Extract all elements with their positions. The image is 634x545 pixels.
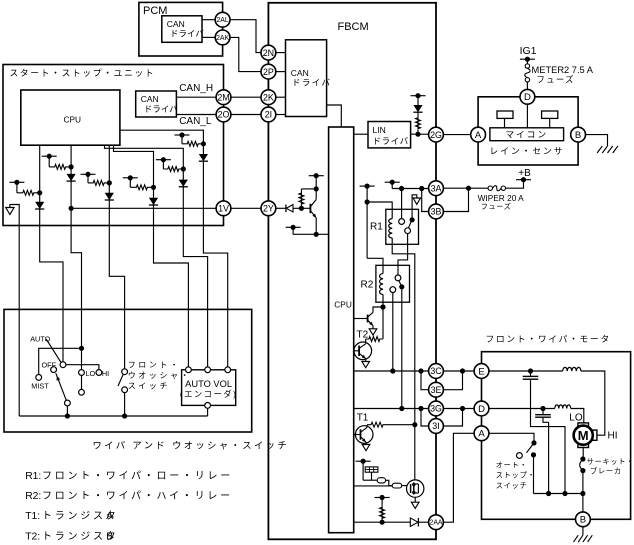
pin 2AK <box>215 30 230 45</box>
junction breaker top <box>580 456 585 461</box>
contact auto-stop NC <box>517 453 523 459</box>
wire AUTO contact to HI contact <box>66 365 99 370</box>
wire rail to B <box>582 494 584 513</box>
wire 3A to fuse <box>443 187 488 189</box>
wire CAN_H net <box>176 96 216 98</box>
svg-text:B: B <box>575 130 581 141</box>
inductor field coil 2 <box>555 405 571 409</box>
ground rain sensor <box>597 146 602 153</box>
svg-text:フロント・: フロント・ <box>128 360 181 369</box>
fuse METER2 <box>525 64 529 68</box>
supply stub R2 coil <box>360 185 375 187</box>
wire coil net to R1 coil <box>367 202 392 219</box>
wire CAN driver PCM to 2AL <box>202 19 215 21</box>
resistor R-D1 <box>17 190 40 195</box>
junction R-D4 <box>151 185 156 190</box>
svg-text:3C: 3C <box>430 366 442 376</box>
pull-up stub R-D2 <box>42 155 57 157</box>
wire CPU to 2AA <box>354 521 411 523</box>
wire w5 to encoder <box>154 226 189 367</box>
relay R1 blade <box>408 222 411 229</box>
wire 2P to CAN driver FBCM <box>276 71 286 73</box>
wire fuse to +B <box>506 180 524 189</box>
transistor Q2a emitter <box>368 320 373 325</box>
svg-text:E: E <box>478 366 484 377</box>
wire 3B outer tie <box>443 188 468 211</box>
wire resistor to collector <box>301 188 316 190</box>
wire stub to 3A line <box>391 182 393 188</box>
pull-up stub R-D4 <box>123 177 138 179</box>
wire 2Y to diode <box>276 207 286 209</box>
junction rail 1 <box>65 413 70 418</box>
wire stub R-D5 down <box>162 160 164 169</box>
motor brush tab top <box>578 423 589 426</box>
wire 2I to CAN driver FBCM <box>276 114 286 116</box>
resistor T1 collector <box>367 422 387 427</box>
svg-text:フロント・ワイパ・ロー・リレー: フロント・ワイパ・ロー・リレー <box>42 470 233 482</box>
svg-text:R2: R2 <box>361 279 374 290</box>
wire washer to rail <box>124 393 126 416</box>
wire w7 to encoder <box>203 226 227 367</box>
MOSFET drain lead <box>414 483 419 485</box>
transistor T1 collector <box>361 427 367 432</box>
svg-text:フューズ: フューズ <box>537 75 575 85</box>
wire motor to breaker <box>582 448 584 460</box>
transistor Q 2Y base bar <box>309 204 311 213</box>
transistor Q2a collector <box>368 312 373 317</box>
svg-text:FBCM: FBCM <box>338 21 369 33</box>
wire emitter down <box>315 218 317 235</box>
junction rail cap1 <box>562 491 567 496</box>
svg-text:2K: 2K <box>263 92 274 102</box>
resistor R-D5 <box>163 167 183 172</box>
blade OFF with arrow <box>56 373 67 400</box>
wire sensor B to ground <box>585 135 607 146</box>
transistor T1 base bar <box>360 429 362 439</box>
wire coupler2 to MOSFET <box>402 485 407 487</box>
relay R1 contact NO <box>399 219 405 225</box>
CAN driver box in FBCM <box>286 40 327 117</box>
svg-text:R2:: R2: <box>25 491 41 502</box>
pin 2I <box>261 107 276 122</box>
svg-text:D: D <box>478 404 485 415</box>
svg-text:CAN_L: CAN_L <box>179 116 212 127</box>
svg-text:オート・: オート・ <box>496 460 528 469</box>
wire motor ground rail <box>534 493 583 495</box>
junction rail cap2 <box>546 491 551 496</box>
svg-text:2AA: 2AA <box>429 520 442 527</box>
motor brush tab bottom <box>578 444 589 447</box>
svg-text:ウオッシャ・: ウオッシャ・ <box>128 371 192 380</box>
junction R-D3 <box>107 180 112 185</box>
wire coil1 to HI brush <box>581 371 605 435</box>
junction collector <box>314 186 319 191</box>
junction 3A-3B tie <box>466 186 471 191</box>
svg-text:スタート・ストップ・ユニット: スタート・ストップ・ユニット <box>10 68 156 78</box>
wire ground to 1V line <box>10 205 19 209</box>
svg-text:R1:: R1: <box>25 471 41 482</box>
pin D motor <box>474 401 489 416</box>
pin 2AL <box>215 12 230 27</box>
wire capacitor1 to rail <box>531 379 566 493</box>
wire CPU output 3 <box>108 145 110 225</box>
pin 1V <box>216 201 231 216</box>
pin B rain sensor <box>571 127 586 142</box>
wire coil2 to LO brush <box>571 409 584 423</box>
svg-text:2O: 2O <box>218 110 230 120</box>
diode R-D4 <box>149 198 158 205</box>
inductor field coil 1 <box>563 367 581 371</box>
ground MOSFET <box>411 502 419 508</box>
svg-text:ワイパ アンド ウオッシャ・スイッチ: ワイパ アンド ウオッシャ・スイッチ <box>93 440 290 450</box>
pin A rain sensor <box>471 127 486 142</box>
wire CPU to Q2a base <box>354 318 368 320</box>
junction R-D2 <box>69 164 74 169</box>
wire w6 to encoder <box>183 226 207 367</box>
CAN driver box in start-stop unit <box>136 91 177 117</box>
ground motor B <box>574 535 579 542</box>
wire 3I branch <box>421 409 429 427</box>
pin B motor <box>576 512 591 527</box>
junction emitter line <box>314 232 319 237</box>
pin 2AA <box>429 515 444 530</box>
relay R1 contact NC <box>405 228 411 234</box>
wire MOSFET to ground <box>414 497 416 502</box>
junction E line <box>460 368 465 373</box>
wire T2 emitter to ground <box>365 359 367 362</box>
motor M armature <box>574 426 593 445</box>
wire R1 NC to R2 NO <box>398 234 408 275</box>
resistor R-D3 <box>88 180 109 185</box>
wire 2G to sensor A <box>443 134 471 136</box>
CPU box in start-stop unit <box>21 90 120 145</box>
diode R-D6 <box>199 154 208 161</box>
ground T1 <box>362 445 370 451</box>
svg-text:スイッチ: スイッチ <box>496 481 528 490</box>
pin 3A <box>429 181 444 196</box>
junction capacitor 1 <box>528 368 533 373</box>
resistor R-D4 <box>130 185 153 190</box>
svg-text:フューズ: フューズ <box>481 202 512 211</box>
junction rail 2 <box>122 413 127 418</box>
wire stub R-D6 down <box>181 135 183 144</box>
resistor R-D2 <box>49 164 71 169</box>
wire R2 coil bottom <box>382 295 384 308</box>
svg-text:MIST: MIST <box>31 381 49 390</box>
svg-text:HI: HI <box>608 431 618 442</box>
wire LIN driver to 2G <box>411 133 429 135</box>
wire 1V line <box>71 207 216 209</box>
junction R-D5 <box>181 166 186 171</box>
supply stub IG1 <box>520 58 535 60</box>
svg-text:B: B <box>580 515 586 526</box>
wire 3C line <box>354 370 429 372</box>
pull-up stub R-D1 <box>9 181 24 183</box>
contact AUTO <box>60 362 66 368</box>
pin 2N <box>261 45 276 60</box>
transistor T2 emitter <box>359 353 365 358</box>
junction auto-stop bottom <box>531 452 536 457</box>
wire 3C to E <box>443 370 474 372</box>
capacitor 1 <box>530 371 532 376</box>
wire 3A line <box>392 188 429 190</box>
wire CPU output 1 <box>39 145 41 225</box>
wire diode to base <box>293 207 310 209</box>
diode to 2AA (open, cathode right) <box>410 518 418 527</box>
wire D to field coil 2 <box>489 408 555 410</box>
svg-text:CAN: CAN <box>167 19 185 29</box>
pin 3E <box>429 382 444 397</box>
wire CAN_H 2M to 2K <box>231 96 261 98</box>
wire R2 coil to T2 resistor <box>382 307 384 339</box>
wire stub R-D3 down <box>87 174 89 183</box>
junction 1V line <box>69 206 74 211</box>
wire w2 to AUTO contact <box>40 226 63 362</box>
svg-text:2M: 2M <box>217 92 229 102</box>
wire 3E outer tie <box>443 371 462 390</box>
wire CAN driver FBCM to CPU <box>327 105 342 127</box>
wire Q2a emitter to ground <box>372 326 374 329</box>
wire T1 emitter to ground <box>365 442 367 444</box>
contact washer switch top <box>122 369 128 375</box>
wire w4 to washer switch <box>109 226 124 369</box>
wire CPU output 2 <box>70 145 72 225</box>
driver block grid <box>365 467 378 472</box>
wire CAN driver PCM to 2AK <box>202 36 215 38</box>
contact pivot2 <box>79 389 85 395</box>
relay R2 box <box>376 265 410 302</box>
wire stub R-D2 down <box>48 156 50 167</box>
transistor Q2a base bar <box>367 315 369 323</box>
svg-text:A: A <box>106 511 113 522</box>
junction R2 coil net CPU <box>365 199 370 204</box>
relay R2 blade <box>399 281 402 286</box>
pin 2Y <box>261 201 276 216</box>
junction MIST branch <box>79 346 84 351</box>
svg-text:フロント・ワイパ・ハイ・リレー: フロント・ワイパ・ハイ・リレー <box>42 490 233 502</box>
wire R1 common to float ground <box>412 195 417 220</box>
junction 2AA resistor <box>380 520 385 525</box>
svg-text:+B: +B <box>518 168 531 179</box>
diode R-D3 <box>105 193 114 200</box>
svg-text:A: A <box>478 429 485 440</box>
MOSFET channel bar <box>413 483 415 495</box>
wire R2 coil net to coil <box>367 258 383 273</box>
diode R-D1 <box>35 202 44 209</box>
motor brush tab right <box>593 430 597 440</box>
wire 3G line <box>354 408 429 410</box>
svg-text:3I: 3I <box>432 421 439 431</box>
svg-text:A: A <box>475 130 482 141</box>
svg-text:T1:: T1: <box>25 511 40 522</box>
coupler pill 1 <box>377 478 385 483</box>
wire coil bottom to Q collector <box>373 307 383 312</box>
svg-text:ドライバ: ドライバ <box>144 104 178 114</box>
pull-up stub R-D5 <box>156 159 171 161</box>
wire w3 to LO contact <box>71 226 81 370</box>
wire stub down <box>362 461 364 480</box>
wire CAN_L net <box>176 114 216 116</box>
contact encoder top 2 <box>205 367 211 373</box>
junction LIN output <box>415 132 420 137</box>
junction T1 at R1 coil net <box>412 422 417 427</box>
wire stub R-D1 down <box>16 182 18 193</box>
pin 2G <box>429 127 444 142</box>
svg-text:スイッチ: スイッチ <box>128 382 170 391</box>
wire 3E branch <box>421 371 429 390</box>
relay R2 contact NO <box>395 275 401 281</box>
wire 3G to D <box>443 408 474 410</box>
capacitor 2 <box>542 409 544 415</box>
pin 2K <box>261 90 276 105</box>
relay R1 box <box>386 209 419 244</box>
wire 3I outer tie <box>443 409 462 427</box>
diode at 2Y (cathode left) <box>286 205 293 212</box>
pin D rain sensor <box>520 89 535 104</box>
transistor Q 2Y emitter <box>311 211 317 218</box>
junction R2 coil bottom <box>380 304 385 309</box>
svg-text:CAN: CAN <box>291 68 309 78</box>
pin 3G <box>429 401 444 416</box>
wire w1 common to switch box rail <box>18 208 20 416</box>
wire diode to stub <box>417 96 419 105</box>
svg-text:2Y: 2Y <box>263 204 274 214</box>
wire block stem <box>371 472 373 480</box>
svg-text:3B: 3B <box>431 207 442 217</box>
coupler pill 2 <box>392 483 402 488</box>
svg-text:ドライバ: ドライバ <box>170 29 204 39</box>
wire stub to emitter line <box>292 227 294 234</box>
junction R-D6 <box>201 141 206 146</box>
MOSFET gate bar <box>410 484 412 493</box>
pin 2P <box>261 64 276 79</box>
svg-text:LO: LO <box>86 369 96 378</box>
wire to coupler1 <box>363 479 377 481</box>
wire breaker to rail <box>582 471 584 494</box>
svg-text:2G: 2G <box>430 130 442 140</box>
svg-text:B: B <box>106 531 113 542</box>
svg-text:サーキット・: サーキット・ <box>587 457 634 466</box>
svg-text:D: D <box>524 92 531 103</box>
transistor T1 emitter <box>361 437 366 442</box>
relay R2 common <box>399 284 404 289</box>
pull-up stub R-D6 <box>175 134 190 136</box>
supply stub +B <box>516 179 531 181</box>
supply stub R1 coil <box>385 181 400 183</box>
wire auto-stop to rail <box>533 455 535 494</box>
wire 1V to 2Y <box>231 207 261 209</box>
wire CPU output 6 <box>120 130 203 225</box>
wire capacitor2 to rail <box>543 417 549 493</box>
contact OFF <box>51 367 57 373</box>
wire rail to encoder <box>207 408 209 416</box>
svg-text:ドライバ: ドライバ <box>292 78 331 88</box>
svg-text:2I: 2I <box>265 110 272 120</box>
FBCM module box <box>268 3 436 540</box>
wire IG1 to fuse <box>526 59 528 64</box>
supply stub LIN <box>411 95 426 97</box>
svg-text:AUTO VOL: AUTO VOL <box>185 379 232 389</box>
svg-text:レイン・センサ: レイン・センサ <box>490 146 565 156</box>
ground T2 <box>362 362 370 368</box>
svg-text:2N: 2N <box>263 48 274 58</box>
ground Q2a <box>369 329 377 335</box>
svg-text:LO: LO <box>569 413 583 424</box>
wire 2N to CAN driver FBCM <box>276 52 286 54</box>
svg-text:2AL: 2AL <box>216 17 228 24</box>
svg-text:2AK: 2AK <box>216 35 229 42</box>
wire R2 coil net vertical <box>366 186 368 258</box>
wire 3B branch inside <box>422 189 429 212</box>
relay R1 coil <box>389 219 392 238</box>
supply stub emitter <box>286 226 301 228</box>
wiper and washer switch box <box>4 309 252 432</box>
transistor T2 collector <box>359 344 365 349</box>
svg-text:CPU: CPU <box>64 115 82 125</box>
LIN driver box in FBCM <box>368 122 411 148</box>
junction 3E branch <box>418 368 423 373</box>
relay R2 coil <box>380 274 383 295</box>
AUTO VOL encoder box <box>182 370 236 406</box>
rain sensor box <box>478 97 578 165</box>
wire emitter to CPU <box>293 233 329 235</box>
junction auto-stop top <box>531 440 536 445</box>
wire CPU output 5 <box>105 145 184 225</box>
MOSFET Q3 circle <box>407 480 424 497</box>
contact HI <box>96 370 102 376</box>
contact blade pivot <box>65 400 71 406</box>
svg-text:マイコン: マイコン <box>505 130 548 140</box>
svg-text:HI: HI <box>102 369 109 378</box>
wire fuse to D pin <box>526 82 528 90</box>
wire switch rail <box>19 415 207 417</box>
wire CPU to T1 base <box>354 434 361 436</box>
pin 2O <box>216 107 231 122</box>
relay R1 common <box>410 217 415 222</box>
wire to MIST contact <box>39 348 82 374</box>
junction R1 contact feed <box>399 186 404 191</box>
pull-up stub R-D3 <box>81 173 96 175</box>
circuit breaker element <box>580 460 583 470</box>
svg-text:T1: T1 <box>357 413 369 424</box>
float ground R1 common <box>413 198 420 204</box>
wire E to field coil <box>489 370 563 372</box>
resistor LIN pull-up <box>416 112 421 134</box>
wire 2K to CAN driver FBCM <box>276 96 286 98</box>
junction base resistor <box>299 206 304 211</box>
junction rail breaker <box>580 491 585 496</box>
diode R-D5 <box>179 180 188 187</box>
wire D pin to microcomputer <box>526 104 528 128</box>
blade washer switch <box>118 374 123 386</box>
junction D line <box>460 406 465 411</box>
wire B to ground <box>582 527 584 536</box>
resistor T2 collector <box>366 337 383 342</box>
wire to R1 contact <box>401 189 403 219</box>
blade auto-stop switch <box>527 443 535 453</box>
wire 2AA to A <box>443 433 474 522</box>
wire R1 coil bottom to T1 net <box>392 238 415 480</box>
diode R-D2 <box>67 174 76 181</box>
pin 2M <box>216 90 231 105</box>
junction R-D1 <box>37 190 42 195</box>
wire CPU to gate <box>354 485 393 487</box>
blade AUTO position <box>46 339 61 362</box>
wire LO to pivot2 <box>81 375 83 389</box>
junction capacitor 2 <box>540 406 545 411</box>
CPU box in FBCM <box>329 127 354 533</box>
junction 3I branch <box>418 406 423 411</box>
